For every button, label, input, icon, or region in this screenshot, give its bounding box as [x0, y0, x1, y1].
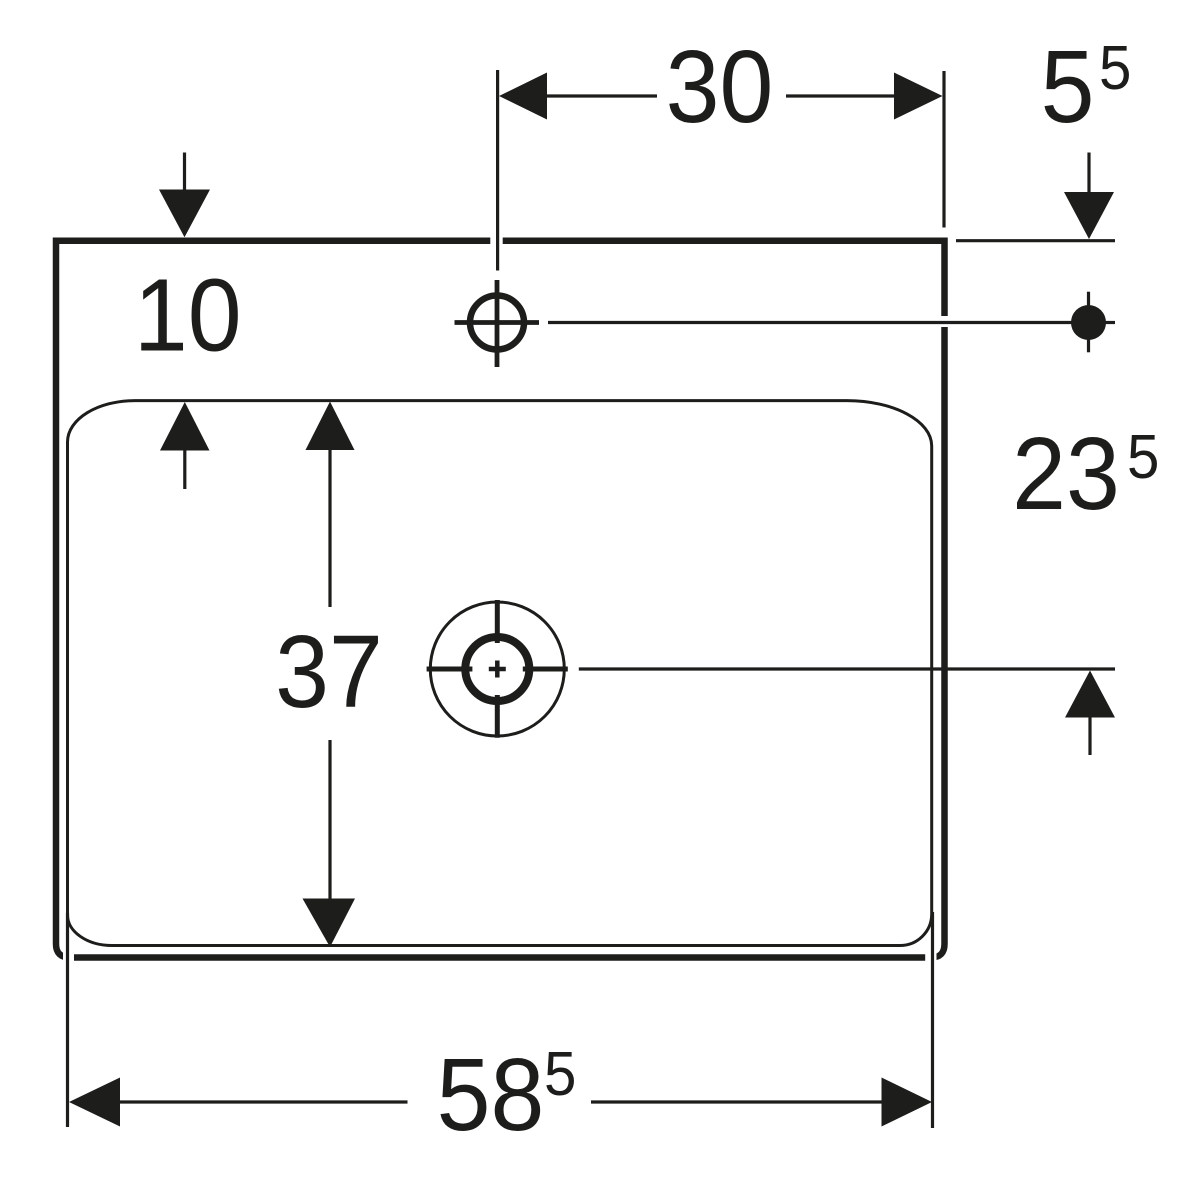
dim 30: right arrow: [894, 73, 943, 120]
dim 30: dimension line segments: [547, 94, 894, 97]
svg-text:37: 37: [275, 615, 383, 729]
dot crosshair horizontal tick: [1100, 321, 1115, 324]
dim 37: upper tail: [328, 450, 331, 607]
drain centerline vertical dashes: [495, 600, 500, 738]
tap position dot: [1071, 305, 1106, 340]
dim 37: lower line: [328, 740, 331, 899]
svg-text:30: 30: [666, 30, 774, 144]
dim 58.5: left extension line: [66, 913, 69, 1127]
tap hole centerline vertical: [495, 280, 500, 367]
dim 58.5: dimension line segments: [120, 1100, 882, 1103]
drain center cross: [489, 661, 506, 678]
dot crosshair vertical: [1087, 292, 1090, 353]
dim 30: left extension line (tap centerline up): [496, 70, 499, 271]
dim 58.5: left arrow: [69, 1078, 120, 1127]
dim 23.5: up arrow at drain leader line: [1065, 671, 1115, 718]
dim 5.5: down arrow: [1064, 192, 1114, 239]
sink outer rim (heavy outline): [56, 241, 945, 958]
dim 58.5: right arrow: [882, 1078, 933, 1127]
drain hole outer circle: [430, 602, 564, 736]
dim 10: down arrow at rim top: [159, 190, 210, 238]
tap hole circle: [470, 296, 524, 350]
svg-text:5: 5: [544, 1039, 576, 1108]
svg-text:5: 5: [1041, 30, 1095, 144]
drain hole inner circle: [465, 637, 529, 701]
svg-text:23: 23: [1012, 417, 1120, 531]
svg-text:58: 58: [437, 1038, 545, 1152]
dim 37: up arrow at basin top: [306, 402, 355, 451]
svg-text:5: 5: [1127, 422, 1159, 491]
dim 58.5: right extension line: [931, 912, 934, 1128]
drain centerline horizontal dashes: [427, 667, 568, 672]
dim 23.5: arrow tail: [1088, 718, 1091, 756]
svg-text:5: 5: [1099, 33, 1131, 102]
leader line from tap hole to position dot: [548, 321, 1072, 324]
dim 10: up arrow at basin top: [160, 402, 210, 451]
dim 30: right extension line: [942, 71, 945, 228]
basin inner outline: [68, 401, 932, 946]
tap hole centerline horizontal: [455, 320, 540, 325]
dim 5.5: arrow tail: [1087, 153, 1090, 193]
gap in rim right edge at tap leader line: [937, 316, 952, 327]
dim 37: down arrow at basin bottom: [303, 899, 356, 948]
gap in rim bottom edge right, at extension line: [925, 950, 936, 966]
dim 10: up arrow tail: [183, 451, 186, 490]
leader line from drain to right: [579, 667, 1115, 670]
svg-text:10: 10: [134, 259, 242, 373]
dim 10: down arrow tail: [183, 153, 186, 190]
dim 5.5: extension line at rim top level: [956, 239, 1115, 242]
gap in rim top edge at centerline: [490, 234, 502, 249]
dim 30: left arrow: [499, 73, 547, 120]
gap in rim bottom edge left, at extension line: [63, 950, 74, 966]
